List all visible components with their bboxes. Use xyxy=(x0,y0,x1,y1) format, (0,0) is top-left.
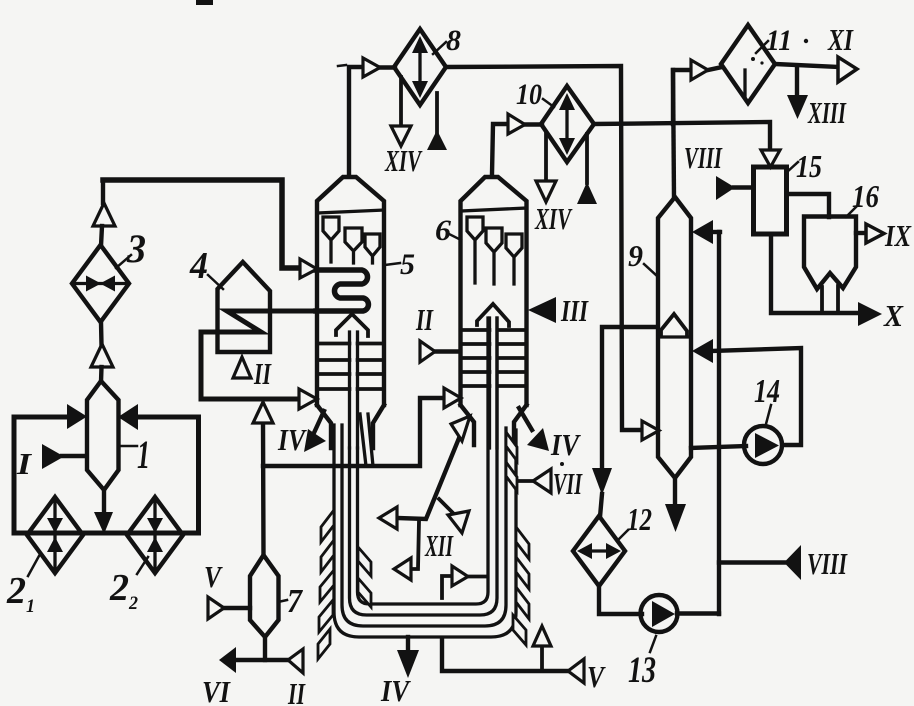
valve branch into right bundle xyxy=(442,576,452,598)
bubble cap A column 6 xyxy=(467,217,483,283)
label 8 xyxy=(433,42,446,54)
wire: column 6 top to exchanger 10 xyxy=(492,124,508,174)
svg-text:II: II xyxy=(415,302,433,337)
recycle loop box around vessel 1 xyxy=(14,417,199,533)
heat exchanger 2_2 xyxy=(127,497,183,573)
bubble cap C column 6 xyxy=(506,234,522,284)
svg-text:13: 13 xyxy=(628,650,656,691)
vent XIV under exchanger 8 xyxy=(399,77,403,126)
wire: riser down to column 9 top xyxy=(673,70,674,198)
svg-text:IV: IV xyxy=(550,427,581,462)
heating coil column 5 xyxy=(316,270,368,311)
vent valve II under heater 4 xyxy=(233,357,251,378)
wire: coil return through heater 4 zigzag to column 5 lower feed xyxy=(201,311,317,399)
label 5 xyxy=(385,263,400,265)
column 6 top tray line xyxy=(461,208,527,211)
stream VIII bottom xyxy=(719,560,784,564)
center pipe column 6 xyxy=(490,318,498,448)
label 6 xyxy=(449,234,461,240)
stream VII into pipe bundle xyxy=(516,479,533,483)
label 14 xyxy=(766,405,771,424)
column 9 chevron xyxy=(661,314,687,336)
U pipe 1 innermost xyxy=(358,318,489,604)
wire: vessel 15 bottom to stream X xyxy=(771,234,858,313)
stream IV bottom arrow xyxy=(406,637,410,652)
svg-text:1: 1 xyxy=(26,596,35,617)
column 9 internal line xyxy=(658,335,691,338)
pump 13 discharge xyxy=(677,611,719,615)
wire below exchanger 3 xyxy=(99,322,104,345)
label 2_2 xyxy=(137,557,148,574)
bubble cap B column 6 xyxy=(486,228,502,284)
label 10 xyxy=(543,99,554,107)
stream II arrow bottom xyxy=(288,649,303,673)
label 1 xyxy=(119,445,137,448)
svg-text:III: III xyxy=(560,293,588,328)
svg-text:VIII: VIII xyxy=(684,140,723,175)
stream V arrow bottom xyxy=(568,659,584,683)
label 2_1 xyxy=(28,556,39,576)
valve before exchanger 8 xyxy=(363,58,380,77)
inlet arrow into vessel 1 right xyxy=(118,404,138,430)
check valve above vessel 1 xyxy=(91,344,113,367)
wire: junction riser to separator 11 xyxy=(673,70,691,124)
label 11 xyxy=(756,41,768,53)
svg-text:VII: VII xyxy=(553,466,583,501)
heat exchanger 3 xyxy=(72,245,129,322)
dot artifact near VII xyxy=(560,462,564,466)
stream V bottom line xyxy=(442,638,568,671)
U pipe 3 xyxy=(342,425,506,626)
drain arrow under exchanger 10 xyxy=(585,134,589,183)
column 5 top tray line xyxy=(317,210,384,213)
trays column 5 xyxy=(317,344,384,390)
svg-text:XI: XI xyxy=(827,22,853,57)
slanted transfer pipe from column 5 skirt xyxy=(360,414,373,466)
label 12 xyxy=(617,530,628,541)
reflux arrow into column 9 top xyxy=(712,230,720,234)
wire: long top-left line from exchanger 3 to column 5 coil xyxy=(103,180,300,268)
label 3 xyxy=(116,255,131,268)
wire: exchanger 8 to column 9 feed valve xyxy=(446,66,642,430)
label 7 xyxy=(278,600,287,602)
svg-text:IV: IV xyxy=(277,422,307,457)
svg-text:3: 3 xyxy=(126,226,146,271)
wire xyxy=(101,226,102,246)
svg-text:2: 2 xyxy=(128,593,138,614)
wire: exchanger 10 line to vessel 15 xyxy=(594,122,770,151)
svg-text:14: 14 xyxy=(754,373,780,410)
svg-text:VI: VI xyxy=(202,674,231,706)
svg-text:2: 2 xyxy=(6,570,26,612)
bubble cap B column 5 xyxy=(345,228,362,263)
hopper 16 neck xyxy=(822,286,838,313)
column 9 bottom arrow xyxy=(673,478,677,506)
center pipe mask column 5 xyxy=(351,332,355,448)
svg-text:6: 6 xyxy=(435,214,451,247)
svg-text:V: V xyxy=(204,559,223,594)
svg-text:8: 8 xyxy=(446,24,461,57)
valve before exchanger 10 xyxy=(508,114,525,134)
XII branch with down arrow xyxy=(439,499,453,513)
XII arrowhead into column 6 neck xyxy=(451,416,470,441)
center pipe mask column 6 xyxy=(491,318,495,448)
svg-text:X: X xyxy=(883,298,904,333)
svg-text:1: 1 xyxy=(137,432,150,477)
stream III arrow into column 6 xyxy=(528,297,556,323)
svg-text:11: 11 xyxy=(766,24,792,57)
vessel 7 xyxy=(250,555,279,637)
wire: exchanger 12 to pump 13 xyxy=(599,586,642,614)
svg-text:7: 7 xyxy=(287,583,304,620)
stream II into column 6 xyxy=(434,349,460,353)
pump 14 xyxy=(744,426,782,464)
valve into column 5 lower section xyxy=(299,389,317,409)
column 5 shell xyxy=(317,177,384,405)
drain arrow under exchanger 8 xyxy=(435,93,439,133)
outlet arrow below vessel 1 xyxy=(102,490,106,514)
stream IX xyxy=(856,231,866,235)
exchanger 12 xyxy=(573,516,625,586)
stream XII drop leg xyxy=(411,521,419,569)
label 16 xyxy=(846,207,856,217)
svg-text:2: 2 xyxy=(109,567,129,609)
svg-text:XII: XII xyxy=(424,528,453,563)
V injection stub with valve xyxy=(540,646,544,671)
U pipe 2 xyxy=(350,318,498,615)
label 4 xyxy=(208,275,223,289)
wire: pump riser x719 xyxy=(717,232,721,614)
svg-text:4: 4 xyxy=(189,245,208,287)
svg-text:5: 5 xyxy=(400,248,415,281)
hopper 16 xyxy=(804,217,856,290)
label 9 xyxy=(644,264,657,276)
flow arrow down to exchanger 12 xyxy=(592,468,612,495)
U pipe 4 outermost xyxy=(334,425,516,637)
svg-text:IV: IV xyxy=(380,673,411,706)
fins inner left bundle xyxy=(358,547,371,607)
heat exchanger 2_1 xyxy=(27,497,83,573)
check valve above exchanger 3 xyxy=(93,203,115,226)
label 13 xyxy=(650,636,656,652)
bubble cap C column 5 xyxy=(365,234,380,263)
wire: vessel 7 riser xyxy=(261,422,266,555)
exchanger 10 xyxy=(541,86,594,162)
svg-text:II: II xyxy=(287,676,305,706)
svg-text:IX: IX xyxy=(884,218,912,253)
pump 14 return arrow into column 9 xyxy=(692,339,713,363)
valve into column 9 xyxy=(642,421,659,440)
valve into column 5 coil xyxy=(300,259,317,278)
pump 14 suction line xyxy=(691,446,746,448)
svg-text:16: 16 xyxy=(852,178,879,214)
inlet arrow into vessel 1 left xyxy=(67,404,87,429)
svg-text:12: 12 xyxy=(627,501,652,537)
stream VIII into vessel 15 xyxy=(734,185,753,189)
vessel 15 xyxy=(754,167,787,234)
check valve on vessel 7 riser xyxy=(253,402,273,423)
stream XIII arrow xyxy=(795,66,799,97)
column 6 shell xyxy=(461,177,527,405)
separator 11 xyxy=(721,25,775,103)
scan artifact dash top edge xyxy=(196,0,213,5)
riser chevron column 5 xyxy=(336,314,368,336)
stream VI arrow xyxy=(219,647,236,673)
exchanger 8 xyxy=(394,29,446,105)
fins left bundle xyxy=(318,510,334,659)
valve into column 6 lower section xyxy=(444,388,461,408)
stream V into vessel 7 xyxy=(224,606,250,610)
trays column 6 xyxy=(461,330,527,386)
wire to stream XI xyxy=(775,64,838,67)
stream IV from column 6 bottoms xyxy=(519,408,532,430)
fins upper right bundle xyxy=(506,432,517,491)
svg-text:9: 9 xyxy=(628,238,643,273)
vent XIV under exchanger 10 xyxy=(544,134,548,181)
svg-text:XIV: XIV xyxy=(384,143,422,178)
svg-text:V: V xyxy=(587,659,606,694)
wire: transfer line y466 to column 6 riser valve xyxy=(263,398,444,466)
svg-text:XIV: XIV xyxy=(534,201,572,236)
dash artifact xyxy=(338,65,346,66)
stream X arrow xyxy=(858,302,882,326)
wire: column 5 top to exchanger 8 line xyxy=(349,67,363,176)
wire: side draw into column 9 at y327 xyxy=(602,327,657,470)
valve into vessel 15 xyxy=(761,150,780,167)
svg-text:I: I xyxy=(16,446,32,481)
vessel 1 xyxy=(87,381,119,490)
svg-text:VIII: VIII xyxy=(807,546,848,581)
column 9 xyxy=(658,197,691,478)
wire: vessel 15 to hopper 16 xyxy=(787,194,830,217)
stream I arrow xyxy=(62,454,86,458)
heater 4 xyxy=(218,262,271,352)
svg-text:XIII: XIII xyxy=(807,95,846,130)
riser chevron column 6 xyxy=(477,304,509,326)
center pipe column 5 xyxy=(350,332,358,448)
fins right bundle xyxy=(513,527,529,645)
pump 13 xyxy=(641,595,678,632)
label 15 xyxy=(787,162,798,172)
svg-text:15: 15 xyxy=(796,148,822,184)
stream XII line with valve xyxy=(397,421,466,519)
stream IV from column 5 bottoms xyxy=(313,411,324,435)
svg-text:10: 10 xyxy=(516,78,542,111)
svg-text:II: II xyxy=(253,356,271,391)
wire: riser above exchanger 3 xyxy=(101,180,105,203)
bubble cap A column 5 xyxy=(323,217,339,262)
wire below vessel 7 xyxy=(263,637,267,660)
